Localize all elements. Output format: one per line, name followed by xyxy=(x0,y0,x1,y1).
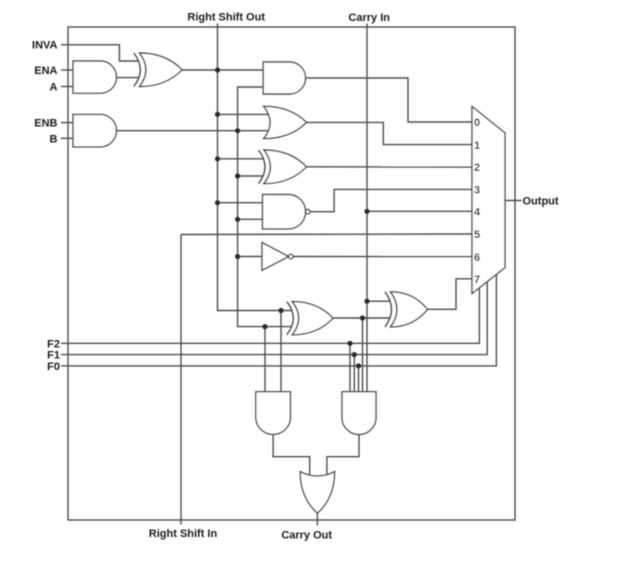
junction U5 top tap xyxy=(215,112,220,117)
junction A-prime / RSO bus xyxy=(215,67,220,72)
wire F2 line to mux select xyxy=(61,288,479,344)
xor-gate U9 extra arc xyxy=(287,302,294,335)
svg-text:F0: F0 xyxy=(47,361,60,373)
svg-text:F2: F2 xyxy=(47,338,60,350)
wire U4 output to mux input 0 xyxy=(306,78,473,122)
svg-text:INVA: INVA xyxy=(32,40,58,52)
xor-gate U10 body xyxy=(391,292,428,327)
wire U5 output to mux input 1 xyxy=(307,122,473,144)
junction U8 tap xyxy=(235,254,240,259)
svg-text:0: 0 xyxy=(474,117,480,129)
outer enclosure box xyxy=(68,27,515,520)
wire F0 drop to U12 xyxy=(358,366,360,392)
wire Right Shift In vertical xyxy=(180,235,182,525)
junction U7 top tap xyxy=(215,200,220,205)
junction U6 top tap xyxy=(215,156,220,161)
wire U5 bottom input xyxy=(238,130,269,132)
wire Output xyxy=(505,200,522,202)
svg-text:F1: F1 xyxy=(47,350,60,362)
xor-gate U6 body xyxy=(264,150,306,184)
wire U8 input xyxy=(238,256,263,258)
wire U9 output drop to U12 xyxy=(362,318,364,392)
wire B input xyxy=(61,137,73,139)
wire U10 output to mux input 7 xyxy=(427,279,472,310)
junction F2 tap xyxy=(347,341,352,346)
wire B-prime drop to U11 xyxy=(264,327,266,392)
svg-text:Carry In: Carry In xyxy=(348,12,390,24)
multiplexer MUX1 xyxy=(472,107,505,294)
and-gate U12 (carry) xyxy=(342,392,376,435)
wire ENA input xyxy=(61,69,73,71)
svg-text:Right Shift In: Right Shift In xyxy=(149,528,218,540)
junction Carry In to mux 4 xyxy=(364,209,369,214)
wire U7 top input xyxy=(218,202,264,204)
wire U7 output to mux input 3 xyxy=(310,189,472,211)
junction U9 out to U12 xyxy=(360,315,365,320)
or-gate U13 (carry out) xyxy=(300,472,334,514)
wire U8 output to mux input 6 xyxy=(293,256,472,258)
wire U12 output to U13 xyxy=(327,434,359,476)
junction F0 tap xyxy=(356,363,361,368)
wire INVA input xyxy=(61,45,139,61)
wire Carry Out stem xyxy=(316,513,318,526)
svg-text:4: 4 xyxy=(474,207,481,219)
nand-gate U7 xyxy=(263,195,306,229)
svg-text:7: 7 xyxy=(474,274,480,286)
wire F1 drop to U12 xyxy=(353,355,355,392)
inverter U8 xyxy=(262,243,289,271)
junction Carry In to U10 xyxy=(364,299,369,304)
wire A input xyxy=(61,86,73,88)
xor-gate U2 (INVA) extra arc xyxy=(134,53,141,87)
wire A-prime to U4 xyxy=(182,69,263,71)
junction B-prime to U11 xyxy=(262,324,267,329)
svg-text:ENA: ENA xyxy=(34,65,57,77)
wire B-prime horizontal xyxy=(117,130,238,132)
wire U6 bottom input xyxy=(238,175,263,177)
xor-gate U9 body xyxy=(292,302,333,335)
wire Right Shift Out bus / A-prime vertical xyxy=(218,24,292,311)
svg-text:3: 3 xyxy=(474,185,480,197)
wire ENB input xyxy=(61,122,73,124)
svg-text:1: 1 xyxy=(474,140,480,152)
junction A-prime to U11 xyxy=(278,308,283,313)
wire Carry In to mux input 4 xyxy=(367,210,472,212)
wire Carry In vertical xyxy=(366,24,368,392)
svg-text:6: 6 xyxy=(474,252,480,264)
wire U11 output to U13 xyxy=(273,434,310,476)
junction U6 bottom tap xyxy=(235,173,240,178)
svg-text:A: A xyxy=(50,82,58,94)
or-gate U5 xyxy=(264,106,307,138)
wire A-prime drop to U11 xyxy=(280,311,282,392)
wire F2 drop to U12 xyxy=(349,343,351,391)
junction F1 tap xyxy=(352,352,357,357)
wire Right Shift In to mux input 5 xyxy=(181,233,472,236)
wire U1 output to U2 xyxy=(117,77,139,79)
xor-gate U6 extra arc xyxy=(259,150,266,184)
junction U7 bottom tap xyxy=(235,217,240,222)
svg-text:2: 2 xyxy=(474,162,480,174)
svg-text:ENB: ENB xyxy=(34,118,57,130)
wire U6 output to mux input 2 xyxy=(306,166,472,168)
xor-gate U2 body xyxy=(140,53,183,87)
and-gate U3 (ENB,B) xyxy=(73,114,116,146)
inverter U8 bubble xyxy=(289,254,293,258)
nand-gate U7 bubble xyxy=(306,210,310,214)
svg-text:5: 5 xyxy=(474,229,480,241)
svg-text:B: B xyxy=(50,133,58,145)
wire U10 top input xyxy=(367,300,390,302)
and-gate U11 (carry) xyxy=(256,392,291,435)
wire U7 bottom input xyxy=(238,218,263,220)
xor-gate U10 extra arc xyxy=(385,292,392,327)
wire U5 top input xyxy=(218,113,269,115)
and-gate U1 (ENA,A) xyxy=(73,61,116,93)
svg-text:Output: Output xyxy=(523,196,559,208)
svg-text:Right Shift Out: Right Shift Out xyxy=(187,12,265,24)
wire F1 line to mux select xyxy=(61,281,487,354)
wire F0 line to mux select xyxy=(61,274,496,366)
wire U6 top input xyxy=(218,158,264,160)
svg-text:Carry Out: Carry Out xyxy=(281,530,332,542)
and-gate U4 xyxy=(263,62,305,94)
junction B-prime bus xyxy=(235,128,240,133)
wire U9 output to U10 xyxy=(333,317,390,319)
wire B-prime vertical bus xyxy=(238,87,292,327)
